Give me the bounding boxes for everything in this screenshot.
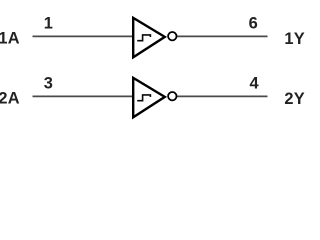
svg-text:1: 1 [44, 14, 53, 32]
svg-text:2A: 2A [0, 89, 20, 107]
svg-text:2Y: 2Y [284, 90, 304, 108]
svg-text:1A: 1A [0, 29, 20, 47]
svg-text:3: 3 [44, 74, 53, 92]
svg-text:1Y: 1Y [284, 30, 304, 48]
svg-text:4: 4 [249, 74, 259, 92]
svg-text:6: 6 [249, 14, 258, 32]
